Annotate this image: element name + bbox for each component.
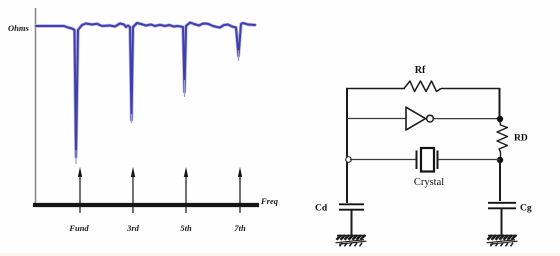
svg-text:Cd: Cd — [315, 204, 328, 214]
resistor RD — [497, 121, 508, 158]
y-axis (Ohms axis) — [35, 8, 37, 204]
spike fade tails — [75, 150, 77, 164]
arrow marker 7th — [238, 167, 242, 213]
op-amp inverter U1 — [406, 107, 426, 130]
wire: top feedback, left segment — [346, 88, 405, 90]
svg-text:Ohms: Ohms — [8, 23, 29, 33]
impedance trace — [36, 23, 255, 158]
wire: Cg to ground — [501, 209, 503, 236]
resistor Rf — [404, 81, 441, 92]
capacitor Cd — [339, 203, 364, 205]
svg-text:5th: 5th — [180, 223, 192, 233]
svg-text:3rd: 3rd — [126, 223, 140, 233]
junction node top — [497, 116, 503, 122]
wire: left rail — [346, 88, 348, 203]
x-axis (Freq axis) — [33, 203, 259, 207]
wire: right rail lower — [499, 160, 501, 201]
crystal X1 left plate — [416, 151, 418, 170]
wire: right rail top — [499, 88, 501, 121]
svg-text:Crystal: Crystal — [414, 177, 444, 188]
arrow marker Fund — [78, 167, 82, 213]
capacitor Cg — [488, 202, 516, 204]
wire: inverter input — [347, 118, 406, 120]
ground (left) — [336, 235, 367, 246]
impedance trace halo — [36, 23, 255, 158]
crystal X1 right plate — [437, 151, 439, 170]
svg-text:Rf: Rf — [415, 65, 426, 76]
wire: inverter output — [434, 118, 501, 120]
bottom edge tint — [0, 253, 560, 256]
crystal X1 body — [421, 148, 434, 172]
arrow marker 5th — [184, 167, 188, 213]
svg-text:Cg: Cg — [520, 204, 532, 214]
inverter bubble — [427, 115, 434, 122]
junction node bottom — [497, 157, 503, 163]
ground (right) — [487, 235, 518, 246]
svg-text:7th: 7th — [234, 223, 246, 233]
svg-text:Fund: Fund — [68, 223, 89, 233]
arrow marker 3rd — [131, 167, 135, 213]
node: open circle on left rail — [346, 157, 352, 163]
wire: crystal left — [350, 159, 416, 161]
svg-text:RD: RD — [514, 134, 528, 144]
wire: top feedback, right segment — [441, 88, 500, 90]
svg-text:Freq: Freq — [260, 196, 279, 206]
wire: crystal right — [438, 159, 500, 161]
wire: Cd to ground — [351, 210, 353, 235]
